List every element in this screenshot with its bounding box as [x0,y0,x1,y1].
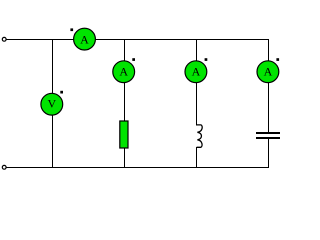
wire branch inductor upper [196,39,198,125]
wire bottom horizontal [5,167,269,169]
terminal top-left [2,37,6,41]
wire branch resistor [123,39,125,168]
inductor L1 [197,125,203,147]
ammeter A3 [185,61,207,83]
node dot A1 [70,28,73,31]
ammeter A1 [74,28,96,50]
resistor R1 [120,121,128,148]
svg-text:V: V [47,97,56,111]
wire top horizontal [5,39,269,41]
node dot A2 [132,58,135,61]
capacitor C1 [256,133,280,138]
node dot V1 [60,91,63,94]
wire branch capacitor upper [267,39,269,132]
voltmeter V1 [41,93,63,115]
svg-text:A: A [119,65,128,79]
node dot A4 [276,58,279,61]
svg-text:A: A [80,33,89,47]
wire branch inductor lower [196,147,198,168]
node dot A3 [205,58,208,61]
terminal bottom-left [2,165,6,169]
wire branch capacitor lower [267,139,269,168]
ammeter A2 [113,61,135,83]
svg-text:A: A [264,65,273,79]
ammeter A4 [257,61,279,83]
wire branch voltmeter [51,39,53,168]
svg-text:A: A [192,65,201,79]
